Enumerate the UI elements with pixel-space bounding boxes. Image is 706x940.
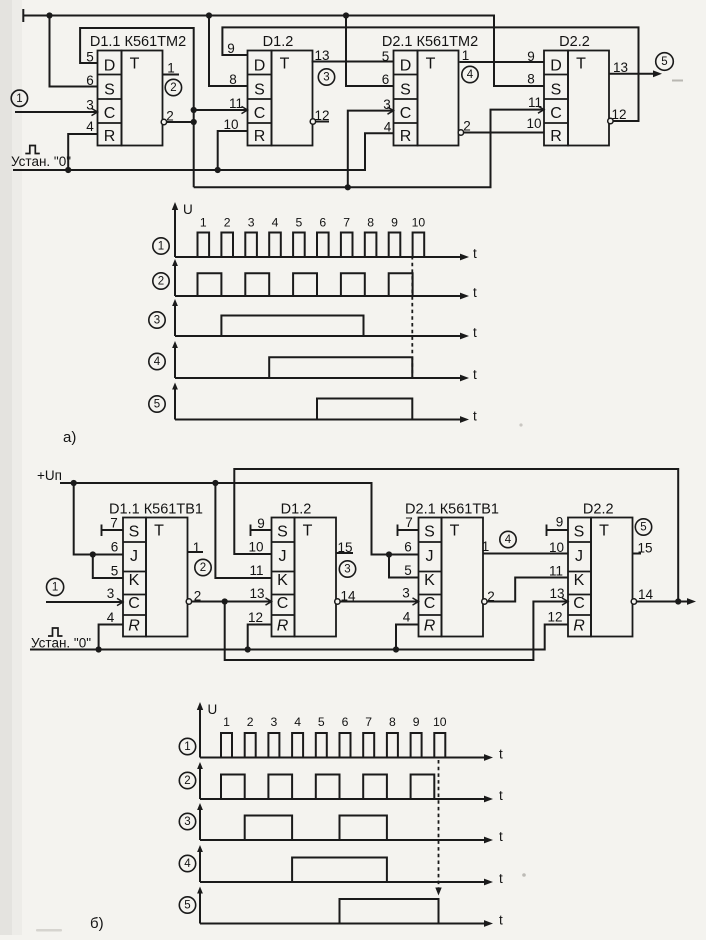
svg-text:C: C — [424, 595, 436, 612]
timing a: axis line trace 1 — [175, 246, 477, 261]
svg-text:D: D — [254, 58, 266, 75]
svg-text:K: K — [574, 572, 585, 589]
svg-text:2: 2 — [200, 562, 206, 574]
pin stub Qbar pin12 of D1.2 — [316, 121, 329, 123]
svg-text:R: R — [573, 618, 585, 635]
svg-text:K: K — [424, 572, 435, 589]
svg-text:t: t — [473, 409, 477, 424]
svg-text:6: 6 — [382, 72, 390, 87]
svg-text:T: T — [599, 523, 609, 540]
timing a: node label 4 — [149, 353, 165, 369]
svg-text:9: 9 — [556, 515, 564, 530]
JK-flip-flop D2.1 (K561TV1) — [405, 502, 499, 637]
timing a: axis line trace 5 — [172, 383, 477, 424]
svg-text:1: 1 — [200, 216, 207, 230]
timing a: node label 1 — [153, 238, 169, 254]
timing b: node label 5 — [179, 897, 195, 913]
svg-text:Устан. "0": Устан. "0" — [11, 154, 71, 169]
D1.1b pin numbers — [107, 516, 202, 626]
D2.1 pin numbers — [382, 48, 471, 135]
wire input 1 to C of D1.1b — [46, 601, 123, 603]
svg-text:R: R — [424, 618, 436, 635]
svg-text:4: 4 — [107, 610, 115, 625]
D2.2 pin numbers — [526, 49, 628, 131]
inverted output bubble pin2 D1.1b — [186, 599, 191, 604]
timing b: trace 5 waveform — [200, 899, 486, 924]
wire Qbar D2.1b to K D2.2b — [487, 578, 568, 602]
svg-text:6: 6 — [111, 540, 119, 555]
junction Qbar D2.2b/feedback — [675, 598, 681, 604]
svg-text:8: 8 — [367, 216, 374, 230]
timing a: reset dashed line — [411, 256, 413, 378]
svg-text:4: 4 — [272, 216, 279, 230]
inverted output bubble pin12 D2.2 — [608, 118, 613, 123]
wire Qbar D2.2b output and feedback to J D1.2b — [234, 469, 696, 605]
svg-text:2: 2 — [224, 216, 231, 230]
svg-text:9: 9 — [257, 516, 265, 531]
junction reset/R-D2.1b — [393, 646, 399, 652]
pin stub Q pin15 of D1.2b — [336, 552, 353, 554]
svg-text:5: 5 — [154, 399, 160, 411]
JK-flip-flop D1.1 (K561TV1) — [109, 502, 203, 637]
svg-text:t: t — [473, 246, 477, 261]
svg-text:T: T — [130, 56, 140, 73]
pin stub Q pin1 of D1.1 — [163, 74, 180, 76]
node 5 output — [656, 53, 674, 71]
node 1 input — [11, 90, 27, 106]
svg-text:5: 5 — [661, 56, 667, 68]
timing b: axis line trace 1 — [200, 747, 503, 762]
svg-text:5: 5 — [111, 564, 119, 579]
svg-text:C: C — [254, 105, 266, 122]
left scan shadow — [0, 0, 12, 935]
timing b: reset dashed line — [438, 760, 440, 889]
timing b: axis line trace 4 — [197, 845, 503, 886]
timing a: axis line trace 2 — [172, 259, 477, 300]
svg-text:S: S — [104, 82, 115, 99]
svg-text:R: R — [104, 128, 116, 145]
inverted output bubble pin2 D2.1b — [482, 599, 487, 604]
node 3 at Q of D1.2 — [318, 69, 334, 85]
S input terminal of D1.2b — [250, 525, 252, 537]
svg-text:J: J — [575, 548, 583, 565]
wire Qbar D2.1 to R D2.2 — [464, 132, 544, 134]
svg-text:8: 8 — [229, 72, 237, 87]
svg-text:2: 2 — [247, 715, 254, 729]
svg-text:а): а) — [63, 429, 76, 446]
timing a: U axis — [174, 207, 176, 257]
svg-text:1: 1 — [52, 582, 58, 594]
svg-text:U: U — [208, 702, 218, 717]
svg-text:3: 3 — [402, 586, 410, 601]
timing a: trace 5 waveform — [175, 399, 462, 420]
timing b: node label 2 — [179, 772, 195, 788]
wire +Up rail — [60, 483, 419, 555]
timing b: axis line trace 3 — [197, 803, 503, 844]
svg-text:t: t — [473, 285, 477, 300]
pin stub Q pin1 of D1.1b — [188, 551, 204, 553]
wire reset bus (b) — [30, 625, 568, 650]
svg-text:13: 13 — [613, 60, 628, 75]
svg-text:1: 1 — [223, 715, 230, 729]
D1.2 pin numbers — [223, 41, 329, 132]
svg-text:D2.1 К561ТВ1: D2.1 К561ТВ1 — [405, 502, 499, 518]
svg-text:7: 7 — [343, 216, 350, 230]
wire Qbar D1.1 feedback to D and clocks — [80, 28, 544, 187]
D-flip-flop D1.1 (K561TM2) — [90, 34, 186, 146]
svg-text:T: T — [303, 523, 313, 540]
svg-text:7: 7 — [405, 515, 413, 530]
svg-text:Устан. "0": Устан. "0" — [31, 636, 91, 651]
wire Q D1.2 pin13 to D D2.1 — [312, 61, 394, 63]
node 4 at Q of D2.1 — [462, 66, 478, 82]
timing b: axis line trace 2 — [197, 762, 503, 803]
wire J to K of D1.1 — [93, 555, 123, 579]
junction rail/S-D1.2 — [206, 12, 212, 18]
timing b: node label 1 — [179, 738, 195, 754]
svg-text:D1.2: D1.2 — [281, 502, 312, 518]
svg-text:2: 2 — [463, 119, 471, 134]
svg-text:t: t — [499, 829, 503, 844]
D1.2b pin numbers — [248, 516, 356, 625]
svg-text:3: 3 — [344, 564, 350, 576]
svg-text:R: R — [400, 128, 412, 145]
svg-text:7: 7 — [110, 516, 118, 531]
wire rail to S of D1.1 — [50, 16, 98, 87]
svg-text:R: R — [128, 618, 140, 635]
inverted output bubble pin14 D2.2b — [631, 599, 636, 604]
svg-text:9: 9 — [413, 715, 420, 729]
svg-text:S: S — [424, 524, 435, 541]
svg-text:J: J — [130, 548, 138, 565]
svg-text:3: 3 — [154, 315, 160, 327]
svg-text:t: t — [473, 367, 477, 382]
svg-text:11: 11 — [229, 96, 243, 111]
svg-text:11: 11 — [549, 564, 563, 579]
svg-text:4: 4 — [86, 119, 94, 134]
svg-text:6: 6 — [319, 216, 326, 230]
timing b: node label 4 — [179, 855, 195, 871]
svg-text:R: R — [550, 128, 562, 145]
svg-text:1: 1 — [16, 93, 22, 105]
junction +Up/K-D1.2 — [212, 480, 218, 486]
timing b: pulse numbers — [223, 715, 447, 729]
svg-text:D: D — [104, 58, 116, 75]
svg-text:C: C — [104, 105, 116, 122]
svg-text:5: 5 — [318, 715, 325, 729]
wire Qbar D2.2 to D of D1.2 (feedback) — [222, 27, 638, 121]
svg-text:5: 5 — [184, 900, 190, 912]
junction +Up/JK-D2.1 — [386, 551, 392, 557]
timing a: trace 2 waveform — [175, 273, 462, 296]
scan artifact dash — [672, 80, 683, 82]
node 1 input (b) — [47, 578, 64, 595]
timing a: axis line trace 3 — [172, 299, 477, 340]
svg-text:T: T — [426, 56, 436, 73]
reset pulse symbol (b) — [48, 628, 62, 636]
wire Q D2.2 pin13 output — [609, 73, 656, 75]
svg-text:D1.2: D1.2 — [263, 34, 294, 50]
wire input 1 to C of D1.1 — [15, 111, 98, 113]
svg-text:R: R — [254, 128, 266, 145]
junction rail/S-D1.1 — [46, 12, 52, 18]
JK-flip-flop D2.2 (K561TV1) — [568, 502, 633, 637]
svg-text:10: 10 — [433, 715, 447, 729]
svg-text:14: 14 — [638, 587, 654, 602]
svg-text:T: T — [450, 523, 460, 540]
inverted output bubble pin14 D1.2b — [335, 599, 340, 604]
svg-text:+Uп: +Uп — [37, 468, 62, 483]
timing b: trace 1 clock waveform — [200, 733, 486, 758]
junction reset/R-D1.1 — [65, 167, 71, 173]
svg-text:D: D — [400, 58, 412, 75]
D-flip-flop D2.1 (K561TM2) — [382, 34, 478, 146]
timing a: trace 1 clock waveform — [175, 233, 462, 258]
svg-text:10: 10 — [223, 117, 238, 132]
reset pulse symbol — [25, 146, 40, 154]
svg-text:6: 6 — [342, 715, 349, 729]
svg-text:5: 5 — [404, 563, 412, 578]
svg-text:12: 12 — [611, 107, 626, 122]
timing b: axis line trace 5 — [197, 887, 503, 928]
svg-text:4: 4 — [467, 69, 474, 81]
wire +Up to J of D1.1 — [74, 483, 123, 555]
svg-text:C: C — [550, 105, 562, 122]
junction +Up/D1.1 — [71, 480, 77, 486]
wire Q D2.1b to J D2.2b — [483, 553, 568, 555]
power rail terminal — [22, 9, 24, 22]
timing a: node label 3 — [149, 312, 165, 328]
svg-text:2: 2 — [184, 775, 190, 787]
node 2 at Q of D1.1b — [195, 559, 211, 575]
svg-text:2: 2 — [158, 276, 164, 288]
timing b: trace 2 waveform — [200, 775, 486, 800]
svg-text:13: 13 — [249, 586, 264, 601]
node 2 at Q of D1.1 — [165, 79, 181, 95]
wire +Up to K of D2.1 — [389, 555, 419, 578]
svg-text:t: t — [473, 325, 477, 340]
junction rail/S-D2.1 — [343, 12, 349, 18]
svg-text:4: 4 — [384, 120, 392, 135]
D-flip-flop D2.2 (K561TM2) — [544, 34, 609, 146]
node 3 at Q of D1.2b — [339, 561, 355, 577]
svg-text:C: C — [400, 105, 412, 122]
timing b: trace 3 waveform — [200, 816, 486, 841]
svg-text:4: 4 — [294, 715, 301, 729]
node 4 at Q of D2.1b — [500, 531, 516, 547]
svg-text:9: 9 — [391, 216, 398, 230]
svg-text:t: t — [499, 747, 503, 762]
svg-text:10: 10 — [526, 116, 541, 131]
D2.2b pin numbers — [547, 515, 653, 625]
svg-text:1: 1 — [482, 539, 490, 554]
svg-text:8: 8 — [527, 72, 535, 87]
JK-flip-flop D1.2 (K561TV1) — [272, 502, 337, 637]
svg-text:3: 3 — [323, 72, 329, 84]
svg-text:б): б) — [90, 915, 104, 932]
svg-text:t: t — [499, 871, 503, 886]
svg-text:3: 3 — [86, 98, 94, 113]
junction Qbar-D1.1/C-D1.2 — [191, 107, 197, 113]
svg-text:C: C — [277, 595, 289, 612]
wire reset bus (a) — [13, 131, 394, 170]
svg-text:U: U — [183, 202, 193, 217]
wire Qbar D1.1b bus to C D2.2b — [225, 602, 568, 661]
svg-text:D: D — [550, 58, 562, 75]
svg-text:T: T — [280, 56, 290, 73]
wire Q D2.1 pin1 to D D2.2 — [460, 61, 545, 63]
svg-text:2: 2 — [170, 82, 176, 94]
svg-text:1: 1 — [462, 48, 470, 63]
svg-text:9: 9 — [227, 41, 235, 56]
D1.1 pin numbers — [86, 50, 175, 135]
svg-text:C: C — [128, 595, 140, 612]
svg-text:4: 4 — [403, 610, 411, 625]
timing a: pulse numbers — [200, 216, 425, 230]
svg-text:3: 3 — [271, 715, 278, 729]
scan artifact speck 3 — [522, 873, 526, 877]
junction reset/R-D1.2 — [215, 167, 221, 173]
junction reset/R-D1.1b — [96, 646, 102, 652]
wire rail to S of D2.1 — [346, 16, 394, 87]
timing b: node label 3 — [179, 813, 195, 829]
svg-text:4: 4 — [184, 858, 191, 870]
svg-text:1: 1 — [158, 241, 164, 253]
junction bottom bus/C-D2.1 — [345, 184, 351, 190]
svg-text:R: R — [277, 618, 289, 635]
svg-text:11: 11 — [249, 563, 263, 578]
svg-text:6: 6 — [404, 540, 412, 555]
inverted output bubble pin2 D1.1 — [161, 119, 166, 124]
timing b: U axis — [199, 707, 201, 758]
svg-text:4: 4 — [505, 534, 512, 546]
svg-text:K: K — [129, 572, 140, 589]
wire rail to S of D1.2 — [209, 16, 248, 87]
svg-text:S: S — [254, 82, 265, 99]
wire logic-1 rail to S inputs — [23, 16, 544, 87]
node 5 at Q of D2.2b — [635, 519, 651, 535]
svg-text:J: J — [279, 548, 287, 565]
svg-text:D2.2: D2.2 — [559, 34, 590, 50]
svg-text:5: 5 — [296, 216, 303, 230]
svg-text:3: 3 — [184, 816, 190, 828]
svg-text:12: 12 — [248, 610, 263, 625]
wire Qbar D1.1b to C D1.2b — [192, 601, 272, 603]
svg-text:S: S — [129, 524, 140, 541]
svg-text:S: S — [277, 524, 288, 541]
svg-text:D1.1 К561ТВ1: D1.1 К561ТВ1 — [109, 502, 203, 518]
junction J/K D1.1 — [90, 551, 96, 557]
scan artifact speck 1 — [36, 929, 62, 932]
svg-text:K: K — [277, 572, 288, 589]
pin stub Q pin15 of D2.2b — [633, 553, 642, 555]
wire +Up to K of D1.2 — [215, 483, 271, 578]
timing b: trace 4 waveform — [200, 858, 486, 883]
timing a: node label 5 — [149, 396, 165, 412]
svg-text:t: t — [499, 913, 503, 928]
S input terminal of D2.2b — [546, 525, 548, 537]
svg-text:3: 3 — [248, 216, 255, 230]
junction reset/R-D1.2b — [245, 646, 251, 652]
svg-text:7: 7 — [365, 715, 372, 729]
scan artifact speck 2 — [519, 423, 522, 426]
timing a: trace 3 waveform — [175, 316, 462, 337]
svg-text:4: 4 — [154, 356, 161, 368]
D-flip-flop D1.2 (K561TM2) — [248, 34, 313, 146]
svg-text:T: T — [576, 56, 586, 73]
svg-text:6: 6 — [86, 73, 94, 88]
timing a: node label 2 — [153, 273, 169, 289]
output arrow node 5 — [653, 70, 662, 77]
svg-text:D2.2: D2.2 — [583, 502, 614, 518]
svg-text:1: 1 — [167, 61, 175, 76]
svg-text:10: 10 — [412, 216, 426, 230]
junction Qbar-D1.1 output — [191, 119, 197, 125]
svg-text:S: S — [574, 524, 585, 541]
svg-text:5: 5 — [640, 522, 646, 534]
svg-text:t: t — [499, 788, 503, 803]
svg-text:10: 10 — [248, 540, 263, 555]
svg-text:3: 3 — [107, 586, 115, 601]
wire Qbar D1.2b to C D2.1b — [340, 601, 418, 603]
timing a: axis line trace 4 — [172, 341, 477, 382]
inverted output bubble pin2 D2.1 — [458, 130, 463, 135]
svg-text:J: J — [426, 548, 434, 565]
S input terminal of D2.1b — [397, 525, 399, 537]
timing a: trace 4 waveform — [175, 357, 462, 378]
inverted output bubble pin12 D1.2 — [310, 119, 315, 124]
S input terminal of D1.1b — [101, 525, 103, 537]
svg-text:D1.1 К561ТМ2: D1.1 К561ТМ2 — [90, 34, 186, 50]
svg-text:S: S — [551, 82, 562, 99]
svg-text:T: T — [154, 523, 164, 540]
junction Qbar D1.1b bus — [222, 598, 228, 604]
svg-text:1: 1 — [184, 741, 190, 753]
svg-text:12: 12 — [547, 610, 562, 625]
svg-text:C: C — [573, 595, 585, 612]
svg-text:8: 8 — [389, 715, 396, 729]
svg-text:S: S — [400, 82, 411, 99]
D2.1b pin numbers — [402, 515, 495, 625]
